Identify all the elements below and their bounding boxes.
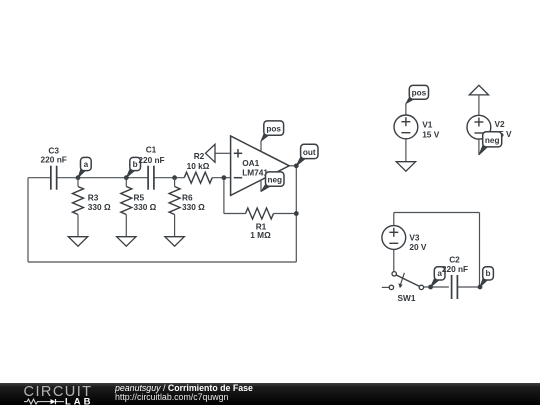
- diode glyph: [51, 399, 56, 404]
- svg-text:330 Ω: 330 Ω: [182, 202, 205, 212]
- svg-text:pos: pos: [266, 125, 281, 134]
- svg-text:V3: V3: [409, 232, 420, 242]
- wire: [154, 177, 184, 179]
- wire: [405, 139, 407, 162]
- switch SW1: [382, 272, 424, 290]
- ground: [165, 237, 184, 247]
- svg-text:SW1: SW1: [398, 293, 416, 303]
- wire: [223, 178, 225, 214]
- wire: [27, 178, 29, 262]
- svg-text:LAB: LAB: [65, 396, 94, 405]
- resistor R1: [246, 208, 274, 219]
- svg-text:b: b: [486, 269, 491, 278]
- op-amp OA1: [231, 136, 290, 195]
- value label R5: [134, 193, 157, 213]
- CircuitLab logo: [0, 383, 110, 405]
- ground: [469, 85, 488, 95]
- wire: [274, 213, 297, 215]
- svg-text:10 kΩ: 10 kΩ: [187, 161, 210, 171]
- junction node a: [76, 175, 81, 180]
- value label V3: [409, 232, 427, 252]
- svg-text:a: a: [84, 160, 89, 169]
- node b flag: [126, 157, 140, 177]
- resistor R6: [169, 178, 180, 237]
- wire: [57, 177, 149, 179]
- wire: [28, 177, 51, 179]
- voltage source V3: [382, 226, 406, 250]
- wire: [394, 212, 480, 214]
- wire: [405, 104, 407, 116]
- svg-text:C1: C1: [146, 144, 157, 154]
- svg-text:330 Ω: 330 Ω: [88, 202, 111, 212]
- capacitor C3: [51, 166, 57, 190]
- junction node a: [428, 285, 433, 290]
- value label C3: [41, 145, 67, 164]
- node a flag: [78, 157, 91, 177]
- wire: [424, 286, 449, 288]
- ground: [206, 144, 216, 162]
- value label SW1: [398, 293, 416, 303]
- svg-text:R2: R2: [194, 151, 205, 161]
- svg-text:330 Ω: 330 Ω: [134, 202, 157, 212]
- junction node b: [124, 175, 129, 180]
- svg-text:C2: C2: [449, 254, 460, 264]
- svg-text:1 MΩ: 1 MΩ: [250, 230, 271, 240]
- value label V1: [422, 120, 440, 140]
- node a flag: [431, 267, 445, 287]
- svg-text:20 V: 20 V: [409, 242, 427, 252]
- footer bar: [0, 383, 540, 405]
- value label R1: [250, 221, 271, 240]
- node pos flag: [261, 121, 284, 141]
- ground: [117, 237, 136, 247]
- capacitor C2: [452, 275, 458, 299]
- wire: [288, 165, 296, 167]
- value label C1: [138, 144, 164, 165]
- value label R2: [187, 151, 210, 171]
- voltage source V1: [394, 115, 418, 139]
- junction: [294, 211, 299, 216]
- wire: [215, 152, 231, 154]
- svg-text:15 V: 15 V: [422, 129, 440, 139]
- resistor R2: [184, 172, 212, 183]
- svg-text:V1: V1: [422, 120, 433, 130]
- svg-text:220 nF: 220 nF: [442, 264, 468, 274]
- wire: [295, 166, 297, 262]
- node pos flag: [406, 85, 429, 103]
- voltage source V2: [467, 115, 491, 139]
- wire: [478, 139, 480, 155]
- value label R3: [88, 193, 111, 213]
- wire: [479, 213, 481, 288]
- wire: [478, 95, 480, 116]
- resistor R3: [73, 178, 84, 237]
- svg-text:neg: neg: [485, 136, 500, 145]
- node neg flag: [261, 172, 284, 192]
- svg-text:V2: V2: [495, 119, 506, 129]
- svg-text:R3: R3: [88, 193, 99, 203]
- ground: [68, 237, 87, 247]
- svg-text:LM741: LM741: [242, 168, 268, 178]
- resistor glyph: [24, 399, 41, 404]
- node neg flag: [479, 132, 502, 155]
- junction: [172, 175, 177, 180]
- capacitor C1: [148, 166, 154, 190]
- value label V2: [495, 119, 513, 139]
- svg-text:R5: R5: [134, 193, 145, 203]
- svg-text:R6: R6: [182, 193, 193, 203]
- value label R6: [182, 193, 205, 213]
- junction output: [294, 163, 299, 168]
- wire: [457, 286, 480, 288]
- svg-text:out: out: [303, 148, 316, 157]
- wire: [393, 249, 395, 271]
- wire: [393, 213, 395, 226]
- node b flag: [480, 267, 493, 287]
- svg-text:OA1: OA1: [242, 158, 259, 168]
- value label OA1: [242, 158, 268, 178]
- footer credit text: [115, 383, 253, 393]
- svg-text:220 nF: 220 nF: [138, 155, 164, 165]
- resistor R5: [121, 178, 132, 237]
- ground: [396, 162, 415, 172]
- junction node b: [478, 285, 483, 290]
- node out flag: [296, 144, 318, 166]
- svg-text:220 nF: 220 nF: [41, 155, 67, 165]
- wire: [224, 213, 246, 215]
- svg-text:neg: neg: [267, 176, 282, 185]
- svg-text:b: b: [133, 160, 138, 169]
- wire: [28, 261, 296, 263]
- junction: [222, 175, 227, 180]
- value label C2: [442, 254, 468, 274]
- wire: [212, 177, 231, 179]
- svg-text:pos: pos: [412, 88, 427, 97]
